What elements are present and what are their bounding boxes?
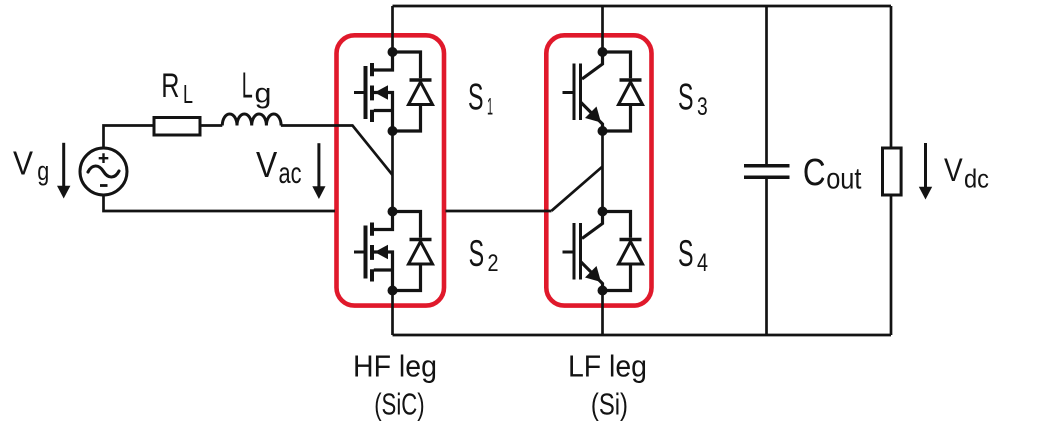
svg-text:S: S xyxy=(469,233,485,274)
svg-text:g: g xyxy=(37,156,49,186)
svg-text:R: R xyxy=(161,67,179,105)
svg-text:C: C xyxy=(803,152,826,194)
svg-text:S: S xyxy=(678,233,694,274)
svg-text:S: S xyxy=(468,76,484,117)
svg-text:dc: dc xyxy=(964,164,989,194)
svg-text:ac: ac xyxy=(279,157,302,190)
svg-text:HF leg: HF leg xyxy=(353,348,437,383)
svg-text:(Si): (Si) xyxy=(591,387,628,422)
svg-text:LF leg: LF leg xyxy=(568,348,647,383)
svg-text:L: L xyxy=(183,79,193,109)
svg-text:V: V xyxy=(13,145,33,182)
svg-text:S: S xyxy=(678,76,694,117)
svg-text:2: 2 xyxy=(488,250,499,277)
svg-text:3: 3 xyxy=(697,93,708,121)
svg-text:1: 1 xyxy=(487,93,493,120)
svg-text:4: 4 xyxy=(697,249,708,277)
svg-text:(SiC): (SiC) xyxy=(374,387,424,422)
svg-text:V: V xyxy=(944,152,963,188)
svg-text:out: out xyxy=(826,163,862,196)
svg-text:g: g xyxy=(255,78,272,109)
svg-text:L: L xyxy=(242,65,253,106)
svg-text:V: V xyxy=(256,144,277,185)
